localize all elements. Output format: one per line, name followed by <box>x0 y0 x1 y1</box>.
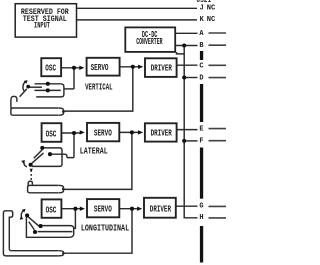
svg-text:INPUT: INPUT <box>34 21 50 31</box>
svg-text:J: J <box>200 5 204 13</box>
svg-text:DRIVER: DRIVER <box>150 203 171 214</box>
svg-text:SERVO: SERVO <box>91 62 109 73</box>
svg-text:SERVO: SERVO <box>94 203 112 214</box>
svg-text:NC: NC <box>207 16 216 24</box>
svg-text:G: G <box>199 203 203 211</box>
svg-text:C: C <box>199 62 203 70</box>
svg-text:B: B <box>199 42 203 50</box>
svg-text:OSC: OSC <box>46 128 57 139</box>
svg-text:OSC: OSC <box>46 204 57 215</box>
svg-text:VERTICAL: VERTICAL <box>85 82 113 93</box>
svg-text:LATERAL: LATERAL <box>80 146 108 157</box>
svg-text:CONVERTER: CONVERTER <box>136 36 163 47</box>
svg-text:SERVO: SERVO <box>94 127 112 138</box>
svg-text:D: D <box>199 74 203 82</box>
svg-text:DRIVER: DRIVER <box>151 62 172 73</box>
svg-text:DRIVER: DRIVER <box>151 128 172 139</box>
svg-text:H: H <box>199 214 203 222</box>
svg-text:LONGITUDINAL: LONGITUDINAL <box>81 223 129 234</box>
svg-text:F: F <box>199 138 203 146</box>
svg-text:E: E <box>199 126 203 134</box>
svg-text:NC: NC <box>207 5 216 13</box>
svg-text:OSC: OSC <box>45 62 56 73</box>
